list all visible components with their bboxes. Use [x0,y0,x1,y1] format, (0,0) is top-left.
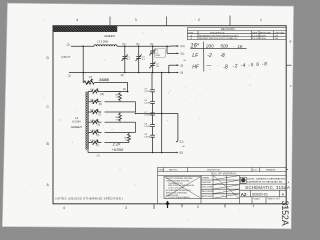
zone tick bottom 0 [181,204,183,207]
wire bottom rail B [69,72,175,74]
svg-text:-8: -8 [220,53,225,59]
svg-text:A2: A2 [241,192,247,197]
svg-text:(10): (10) [100,94,104,96]
capacitor C1 [122,46,128,72]
hatched microfilm strip [53,26,117,32]
svg-text:GREEN: GREEN [104,34,116,38]
svg-text:DESCRIPTION: DESCRIPTION [207,169,221,171]
revision table [187,28,286,40]
svg-text:R.W.H.: R.W.H. [260,38,267,40]
svg-text:APPROVED: APPROVED [202,195,213,198]
svg-text:4.7UF: 4.7UF [144,91,151,93]
svg-text:ALTEC LANSING CORPORATION: ALTEC LANSING CORPORATION [247,178,285,181]
svg-text:REVISIONS: REVISIONS [221,29,236,31]
junction dots lower [135,113,163,154]
svg-text:DATE: DATE [252,31,258,34]
label C3 box [155,49,166,58]
svg-text:SCALE: SCALE [254,198,261,201]
svg-text:2: 2 [197,205,199,209]
arrow terminal (8) [175,72,177,74]
svg-text:CHK ENG: CHK ENG [275,32,285,34]
tap resistor R3 [88,99,102,104]
svg-text:2.2UF: 2.2UF [144,103,151,105]
wire vertical input branch [82,46,84,82]
svg-text:5.1K: 5.1K [90,140,95,142]
scan speckle dark dots [60,30,251,186]
svg-text:J.M.: J.M. [275,38,279,40]
svg-text:(3): (3) [97,135,100,137]
long vertical wire right [161,73,163,153]
svg-text:(6): (6) [121,73,124,77]
ladder resistor R8 [105,92,122,102]
svg-text:500: 500 [220,44,228,49]
ladder wire tap2 to bus [105,102,136,112]
svg-text:DESCRIPTION: DESCRIPTION [210,32,225,34]
capacitor C4 [149,62,155,73]
svg-text:R.W.H.: R.W.H. [260,35,267,37]
wire R1 row [82,82,85,84]
junction dots rails [82,46,169,93]
step wire to (12) [136,113,178,142]
zone tick top 2 [166,17,168,26]
svg-text:(5): (5) [97,125,100,127]
svg-text:A DIVISION OF LTV LING ALTEC,: A DIVISION OF LTV LING ALTEC, INC. [247,180,283,183]
svg-text:(12): (12) [179,142,183,144]
svg-text:6.2 MH: 6.2 MH [72,120,80,124]
inductor L1 coil [94,45,117,47]
svg-text:2.2k: 2.2k [111,141,121,147]
zone tick top 1 [109,17,111,26]
svg-text:A: A [288,180,290,184]
company name lines [247,178,285,184]
wire top rail A left [71,45,94,47]
svg-text:2.4K: 2.4K [90,130,95,132]
title block and bill of material [158,168,287,204]
capacitor C2 [136,46,142,72]
svg-text:6-4-71: 6-4-71 [252,35,259,37]
capacitor C3 [149,46,155,63]
zone tick top 3 [229,16,231,26]
svg-text:(10): (10) [180,46,184,48]
svg-text:RELEASED FOR PROD PER ECN 4-03: RELEASED FOR PROD PER ECN 4-0312 [199,34,239,37]
resistor R1 variable [84,79,94,85]
svg-text:REMARKS: REMARKS [266,168,276,171]
svg-text:(7): (7) [98,114,101,116]
arrow terminal (9) [169,65,179,72]
svg-text:1.5UF: 1.5UF [144,126,151,128]
svg-text:(7): (7) [97,154,100,157]
svg-text:SHEET 1 OF 1: SHEET 1 OF 1 [268,199,281,201]
svg-text:ELEC DSGN: ELEC DSGN [202,187,214,189]
svg-text:3: 3 [135,18,137,22]
svg-text:·: · [217,64,218,68]
svg-text:3: 3 [125,206,127,210]
capacitor chain C6 [150,92,155,104]
svg-text:B: B [290,39,292,43]
fold arrow bottom [166,202,169,208]
svg-text:SYM: SYM [188,32,193,34]
svg-text:(8): (8) [180,73,183,75]
tap resistor R2 [88,89,102,94]
svg-text:SCHEMATIC, 315ZA: SCHEMATIC, 315ZA [245,185,290,190]
svg-text:NOTES (UNLESS OTHERWISE SPECIF: NOTES (UNLESS OTHERWISE SPECIFIED.) [56,196,124,200]
svg-text:4: 4 [76,18,78,22]
svg-text:REVISED PER ECN 4-0377 C4 WAS: REVISED PER ECN 4-0377 C4 WAS .03 [199,37,238,40]
company logo [240,177,246,183]
svg-text:-2: -2 [207,53,212,59]
tap resistor R5 [88,120,102,125]
zone tick bottom 1 [153,204,155,209]
svg-text:3152A: 3152A [280,201,290,226]
arrow terminal (13) [176,152,178,154]
svg-text:(9): (9) [180,65,183,67]
svg-text:(1): (1) [68,74,71,78]
ladder resistor R10 [105,132,131,142]
svg-text:GREEN: GREEN [71,125,83,129]
tap resistor R6 [88,130,102,135]
svg-text:—: — [205,63,212,69]
svg-text:(11): (11) [180,54,184,56]
svg-text:1.2K: 1.2K [90,120,95,122]
svg-text:1.0UF: 1.0UF [144,114,151,116]
svg-text:HF: HF [192,65,200,71]
svg-text:(13): (13) [179,153,183,155]
svg-text:1: 1 [260,18,262,22]
capacitor chain C8 [150,115,155,127]
inductor L2 winding bar [86,92,88,150]
capacitor chain C5 [150,73,155,92]
bottom rail wire [88,152,176,154]
svg-text:C: C [290,84,292,88]
svg-text:-8: -8 [223,64,228,70]
zone tick bottom 2 [224,204,226,208]
tolerance note text [166,178,195,199]
arrow terminal (10) [171,45,179,47]
tap resistor R7 [88,140,102,145]
svg-text:1K: 1K [238,44,243,49]
tap resistor R4 [88,109,102,114]
svg-text:1: 1 [253,204,255,208]
ladder wire tap4 to bus2 [105,122,136,132]
svg-text:ITEM: ITEM [158,169,163,171]
svg-text:PART NO.: PART NO. [169,168,178,171]
handwritten response table [190,42,246,72]
capacitor chain C9 [150,127,155,153]
svg-text:MECH DSGN: MECH DSGN [202,191,214,193]
capacitor chain C7 [150,103,155,115]
svg-text:CHECKED: CHECKED [202,182,212,184]
svg-text:A: A [242,178,244,182]
svg-text:(2): (2) [67,42,70,46]
svg-text:200: 200 [205,44,214,49]
svg-text:LF: LF [192,53,199,59]
wire top rail A right [117,45,171,47]
svg-text:DRAWN: DRAWN [202,176,210,179]
svg-text:+K555: +K555 [112,147,124,152]
svg-text:24365: 24365 [99,78,109,82]
diagonal void marks [165,176,239,199]
wire L2 bottom to rail [87,149,89,153]
svg-text:(9): (9) [99,104,102,106]
scan speckle noise [18,8,250,221]
zone tick right 1 [286,64,291,66]
svg-text:1.8UF: 1.8UF [144,137,151,139]
svg-text:4: 4 [63,206,65,210]
svg-text:9-2-71: 9-2-71 [252,38,259,40]
zone tick right 2 [286,168,288,170]
svg-text:J.M.: J.M. [275,35,279,37]
ladder resistor R9 [105,112,122,122]
svg-text:BILL OF MATERIAL: BILL OF MATERIAL [211,173,237,176]
svg-text:(6): (6) [123,88,126,91]
svg-text:L1 3.3MH: L1 3.3MH [97,41,108,44]
drawing frame border [53,26,286,204]
svg-text:DO NOT SCALE DRAWING: DO NOT SCALE DRAWING [169,196,191,199]
svg-text:INPUT: INPUT [62,55,71,59]
svg-text:GRN: GRN [155,55,160,57]
svg-text:APPROVED: APPROVED [260,31,272,34]
arrow terminal (11) [167,46,179,53]
svg-text:2: 2 [198,18,200,22]
svg-text:60920-01: 60920-01 [252,192,268,196]
wire tap1 to node6 [102,91,128,93]
svg-text:(1): (1) [96,145,99,147]
wire node6 drop [127,83,129,92]
